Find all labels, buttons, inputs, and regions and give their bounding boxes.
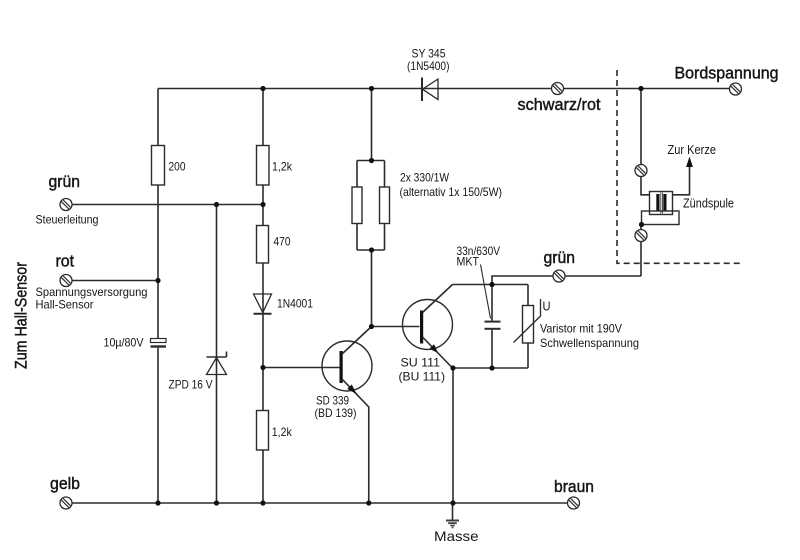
svg-text:schwarz/rot: schwarz/rot bbox=[518, 95, 601, 114]
varistor with 190V bbox=[514, 299, 541, 343]
svg-text:200: 200 bbox=[169, 160, 186, 174]
junction node rot / left rail bbox=[155, 278, 160, 283]
zener diode ZPD16V bbox=[207, 352, 227, 375]
svg-text:Zündspule: Zündspule bbox=[683, 196, 734, 211]
wire gruen steuerleitung bbox=[72, 204, 263, 206]
svg-text:SU 111: SU 111 bbox=[401, 356, 441, 370]
capacitor C 33n/630V bbox=[485, 321, 501, 330]
svg-text:10µ/80V: 10µ/80V bbox=[104, 336, 144, 350]
terminal coil top bbox=[635, 165, 647, 177]
terminal gruen right bbox=[553, 270, 565, 282]
svg-text:(alternativ 1x 150/5W): (alternativ 1x 150/5W) bbox=[400, 185, 503, 199]
wire coil secondary out bbox=[673, 163, 690, 195]
junction node capacitor top bbox=[489, 282, 494, 287]
svg-text:Zur Kerze: Zur Kerze bbox=[668, 142, 717, 157]
svg-text:1,2k: 1,2k bbox=[272, 160, 293, 174]
terminal gruen left bbox=[60, 199, 72, 211]
capacitor C 10u/80V bbox=[151, 339, 167, 348]
resistor R 470 bbox=[257, 226, 269, 264]
wire 330 resistor pair frame bbox=[357, 89, 385, 327]
svg-text:(BD 139): (BD 139) bbox=[315, 406, 357, 420]
wire left vertical (hall supply rail) bbox=[157, 89, 159, 504]
junction node collector SD339 / base SU111 bbox=[369, 324, 374, 329]
svg-text:MKT: MKT bbox=[457, 255, 480, 269]
terminal rot bbox=[60, 275, 72, 287]
label pointer MKT to capacitor bbox=[481, 265, 491, 319]
junction node 330 pair top bbox=[369, 158, 374, 163]
svg-text:470: 470 bbox=[274, 235, 291, 249]
junction node ground bus / middle branch bbox=[260, 500, 265, 505]
wire zener branch bbox=[216, 205, 218, 504]
wire capacitor 33n branch bbox=[491, 285, 493, 369]
junction node ground bus / SD339 emitter bbox=[366, 500, 371, 505]
ground symbol Masse bbox=[446, 521, 459, 528]
svg-text:ZPD 16 V: ZPD 16 V bbox=[169, 378, 213, 392]
wire coil column top bbox=[641, 89, 650, 195]
svg-text:grün: grün bbox=[49, 172, 81, 191]
resistor R330 left bbox=[352, 187, 362, 224]
terminal Bordspannung bbox=[730, 83, 742, 95]
svg-text:1N4001: 1N4001 bbox=[277, 297, 313, 311]
svg-text:Zum Hall-Sensor: Zum Hall-Sensor bbox=[12, 262, 31, 369]
terminal braun bbox=[568, 497, 580, 509]
diode 1N4001 bbox=[254, 294, 272, 314]
wire bottom ground bus bbox=[72, 502, 568, 504]
resistor R 200 bbox=[152, 146, 165, 186]
wire gruen right to coil bbox=[492, 276, 641, 285]
resistor R 1,2k top bbox=[257, 146, 270, 186]
svg-text:rot: rot bbox=[56, 251, 75, 270]
svg-text:U: U bbox=[543, 299, 551, 314]
transistor Q1 SD339 bbox=[322, 327, 372, 504]
svg-text:(BU 111): (BU 111) bbox=[399, 370, 446, 384]
junction node ground bus / masse bbox=[450, 500, 455, 505]
wire rot branch bbox=[72, 280, 158, 282]
arrow Zur Kerze bbox=[686, 157, 693, 168]
wire top bus bbox=[158, 88, 730, 90]
wire emitter to ground bus bbox=[452, 368, 454, 503]
junction node base tap SD339 bbox=[260, 365, 265, 370]
junction node top bus / middle branch bbox=[260, 86, 265, 91]
junction node top bus / coil column bbox=[638, 86, 643, 91]
svg-text:1,2k: 1,2k bbox=[272, 425, 293, 439]
wire SU111 collector line bbox=[453, 284, 529, 286]
junction node coil bottom box bbox=[639, 222, 644, 227]
svg-text:braun: braun bbox=[554, 477, 594, 496]
junction node top bus / 330 pair bbox=[369, 86, 374, 91]
svg-text:grün: grün bbox=[544, 248, 576, 267]
wire base SD339 bbox=[263, 367, 340, 369]
diode SY345 bbox=[422, 78, 438, 102]
junction node steuerleitung / zener bbox=[214, 202, 219, 207]
junction node ground bus / left rail bbox=[155, 500, 160, 505]
transistor Q2 SU111 bbox=[403, 285, 453, 369]
wire emitter junction bottom bbox=[453, 367, 528, 369]
wire middle branch 1,2k/470/1N4001 bbox=[262, 89, 264, 504]
wire base SU111 bbox=[372, 326, 420, 328]
wire varistor branch bbox=[527, 285, 529, 369]
svg-text:(1N5400): (1N5400) bbox=[407, 59, 450, 73]
svg-text:gelb: gelb bbox=[50, 474, 80, 493]
svg-text:Steuerleitung: Steuerleitung bbox=[36, 213, 99, 227]
junction node capacitor bottom bbox=[489, 365, 494, 370]
resistor R330 right bbox=[380, 187, 390, 224]
junction node steuerleitung / middle branch bbox=[260, 202, 265, 207]
junction node ground bus / zener bbox=[214, 500, 219, 505]
dashed boundary line bbox=[617, 70, 743, 263]
wire coil bottom bbox=[640, 225, 642, 277]
terminal schwarz/rot bbox=[552, 83, 564, 95]
terminal coil bottom bbox=[635, 230, 647, 242]
svg-text:Hall-Sensor: Hall-Sensor bbox=[36, 298, 94, 312]
svg-text:2x 330/1W: 2x 330/1W bbox=[400, 171, 450, 185]
ignition coil Zuendspule bbox=[642, 192, 680, 225]
svg-text:Bordspannung: Bordspannung bbox=[675, 64, 779, 83]
svg-text:Masse: Masse bbox=[434, 528, 479, 544]
junction node emitter SU111 bbox=[450, 365, 455, 370]
terminal gelb bbox=[60, 497, 72, 509]
svg-text:Varistor mit 190V: Varistor mit 190V bbox=[540, 322, 622, 336]
svg-text:Schwellenspannung: Schwellenspannung bbox=[540, 336, 639, 350]
wire masse stub bbox=[452, 503, 454, 520]
junction node 330 pair bottom bbox=[369, 247, 374, 252]
resistor R 1,2k bottom bbox=[257, 411, 269, 451]
